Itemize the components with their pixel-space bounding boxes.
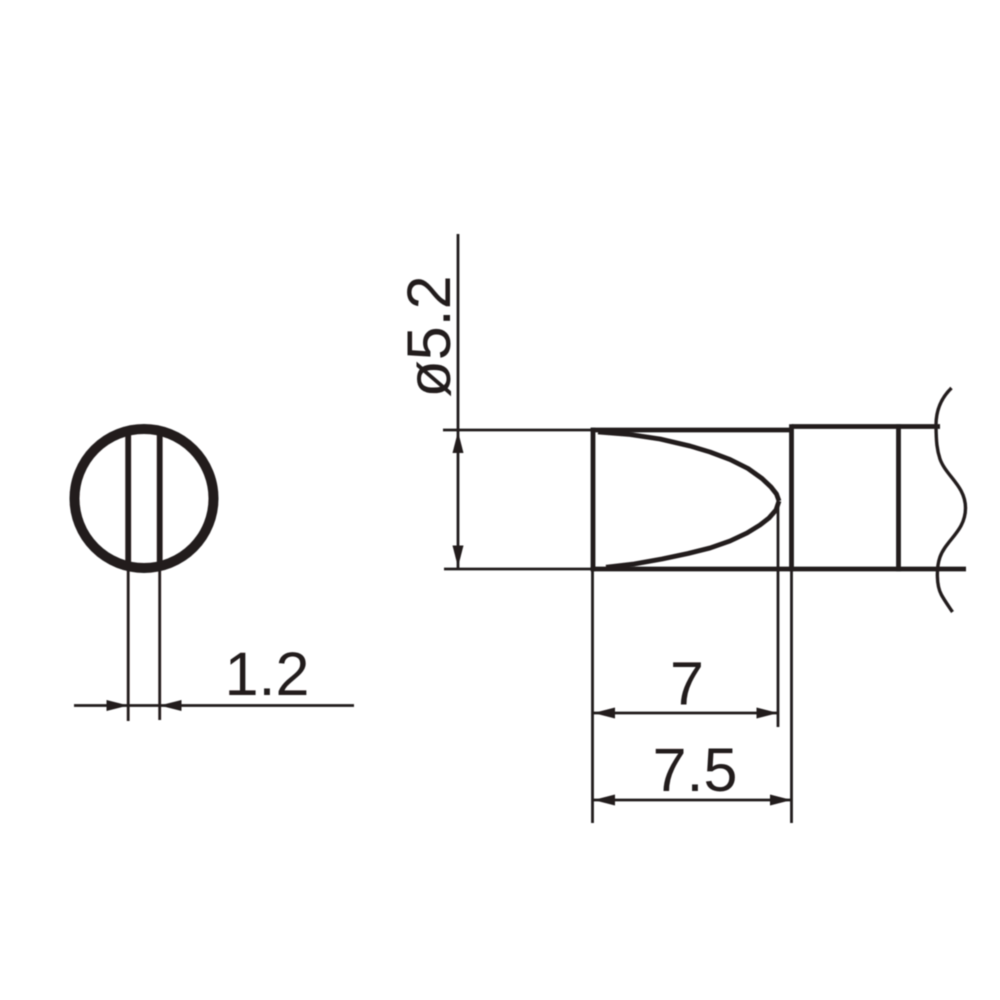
slot right edge line <box>157 431 163 567</box>
body box1 left edge <box>591 428 596 571</box>
end-view tip circle <box>75 429 214 568</box>
body box1 top edge <box>591 428 792 433</box>
extension line below slot right <box>158 566 161 720</box>
box1/box2 divider edge <box>789 424 794 571</box>
svg-text:7: 7 <box>670 650 704 718</box>
dimension line 1.2 <box>74 704 354 707</box>
svg-text:1.2: 1.2 <box>225 640 310 708</box>
dimension line 7 <box>594 712 779 715</box>
left extension line below box1 <box>591 571 594 823</box>
phi 5.2 up arrow <box>453 432 464 454</box>
body bottom edge (continuous under box1..box3) <box>591 567 966 572</box>
chisel cut curve lower branch <box>606 501 779 567</box>
arrow 7 right <box>757 708 779 719</box>
extension line at cut vertex (for 7) <box>777 503 780 727</box>
arrow left (points right at slot left) <box>107 700 129 711</box>
svg-text:7.5: 7.5 <box>653 736 738 804</box>
dimension line 7.5 <box>594 799 792 802</box>
box2 top edge <box>792 424 941 429</box>
bottom extension line (left of body) <box>444 568 593 571</box>
box2 right edge <box>896 424 901 571</box>
top extension line (left of body) <box>443 429 593 432</box>
phi 5.2 down arrow <box>453 546 464 568</box>
break squiggle line <box>936 388 966 612</box>
svg-text:ø5.2: ø5.2 <box>395 275 463 397</box>
right extension line (for 7.5) <box>790 571 793 823</box>
chisel cut curve upper branch <box>598 432 779 501</box>
arrow 7.5 right <box>770 795 792 806</box>
slot left edge line <box>125 431 131 567</box>
side view: phi 5.2 dimension vertical line <box>457 234 460 568</box>
arrow 7.5 left <box>594 795 616 806</box>
arrow right (points left at slot right) <box>160 700 182 711</box>
arrow 7 left <box>594 708 616 719</box>
extension line below slot left <box>127 566 130 721</box>
